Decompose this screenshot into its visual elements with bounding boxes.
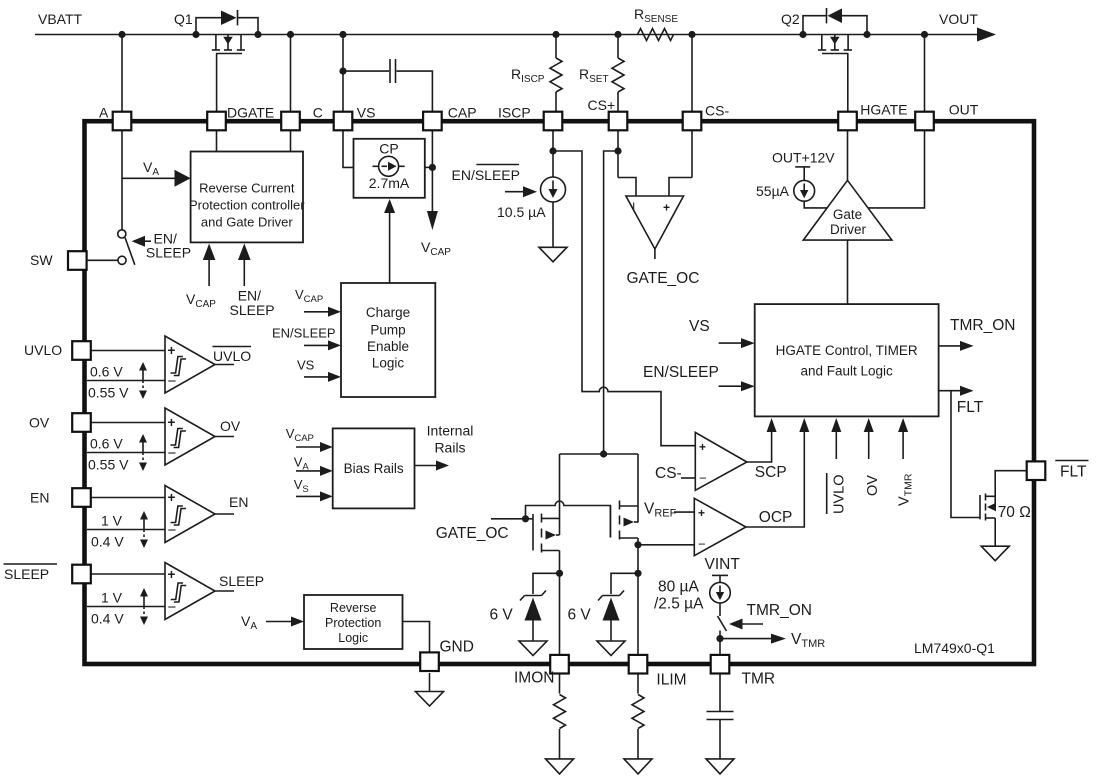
capacitor on TMR	[707, 711, 734, 713]
transistor Q1 body diode	[221, 11, 237, 26]
svg-text:CS-: CS-	[705, 103, 729, 119]
svg-text:Enable: Enable	[367, 339, 409, 354]
wire rail to C pin	[290, 35, 292, 113]
wire rail to VS column	[342, 35, 344, 113]
resistor RSENSE	[638, 29, 674, 41]
threshold double arrow	[142, 368, 144, 381]
wire VREF stub to OCP +	[674, 511, 694, 513]
VCAP down arrowhead	[427, 211, 438, 230]
pin TMR	[711, 655, 730, 674]
ground symbol below FLT FET	[981, 546, 1009, 561]
svg-text:GATE_OC: GATE_OC	[627, 270, 700, 287]
threshold double arrow	[143, 594, 145, 607]
transistor M1 (IMON mirror)	[532, 514, 534, 551]
wire EN/SLEEP arrow into RCP box bottom	[243, 258, 245, 286]
ground symbol below TMR capacitor	[706, 759, 734, 774]
wire M1 drain to mirror rail	[559, 454, 561, 535]
wire rail to A pin	[121, 35, 123, 113]
svg-text:1 V: 1 V	[101, 513, 123, 529]
comparator SCP	[695, 432, 747, 490]
wire capacitor to CAP pin	[397, 71, 433, 112]
ground symbol below IMON resistor	[546, 759, 574, 774]
svg-text:CP: CP	[379, 141, 398, 157]
svg-text:OCP: OCP	[759, 509, 793, 526]
svg-text:Internal: Internal	[427, 423, 474, 439]
svg-text:Q2: Q2	[781, 11, 800, 27]
svg-text:+: +	[699, 440, 706, 454]
capacitor VS-CAP	[389, 59, 391, 83]
wire IMON pin to external resistor	[559, 673, 561, 694]
svg-text:EN/SLEEP: EN/SLEEP	[643, 364, 719, 381]
block Charge Pump Enable Logic	[341, 283, 435, 397]
svg-text:UVLO: UVLO	[832, 475, 848, 515]
resistor on IMON	[554, 695, 566, 729]
wire FLT output arrow	[939, 390, 961, 392]
svg-text:0.55 V: 0.55 V	[88, 385, 129, 401]
wire GND pin to ground	[429, 673, 431, 692]
output UVLO wire stub	[215, 364, 234, 366]
wire OV into block (arrow up)	[868, 431, 870, 459]
svg-text:ILIM: ILIM	[656, 672, 686, 689]
svg-text:EN: EN	[30, 490, 49, 506]
comparator U-SLEEP triangle	[165, 563, 215, 620]
ground symbol below ILIM resistor	[624, 759, 652, 774]
pin EN	[72, 488, 91, 507]
hysteresis symbol	[170, 357, 186, 376]
svg-text:HGATE Control, TIMER: HGATE Control, TIMER	[776, 343, 918, 358]
svg-text:Bias Rails: Bias Rails	[344, 461, 404, 476]
svg-text:+: +	[698, 506, 705, 520]
node VTMR junction	[716, 635, 723, 642]
svg-text:UVLO: UVLO	[24, 342, 62, 358]
EN/SLEEP arrowhead at switch	[132, 236, 145, 247]
wire FLT FET source to ground	[994, 518, 996, 546]
pin ILIM	[629, 655, 648, 674]
pin OV	[72, 413, 91, 432]
svg-text:I: I	[632, 200, 635, 214]
wire CS+ to GATE_OC left input	[618, 178, 636, 197]
wire VA tap to RCP box	[122, 177, 176, 179]
wire Q1 gate to DGATE pin	[216, 54, 218, 113]
wire SLEEP pin to comparator +	[90, 573, 165, 575]
wire HGATE pin to gate driver	[847, 131, 849, 181]
svg-text:SLEEP: SLEEP	[230, 302, 275, 318]
wire VS pin to CP box	[343, 131, 354, 168]
wire DGATE pin to RCP box	[216, 131, 218, 152]
switch upper contact	[118, 230, 126, 238]
wire OV threshold to comparator -	[87, 452, 165, 454]
wire source to TMR switch	[719, 603, 721, 616]
resistor RISCP	[555, 35, 557, 59]
pin VS	[334, 112, 353, 131]
wire to zener D1	[533, 573, 560, 594]
wire mirror top rail	[560, 453, 639, 455]
comparator EN	[30, 486, 248, 550]
switch blade	[125, 238, 135, 265]
wire CS- to GATE_OC right input	[669, 178, 692, 197]
svg-text:TMR_ON: TMR_ON	[747, 602, 812, 619]
svg-text:0.6 V: 0.6 V	[90, 436, 123, 452]
svg-text:Protection: Protection	[325, 616, 381, 630]
svg-text:2.7mA: 2.7mA	[369, 175, 410, 191]
node M1 source/zener junction	[556, 570, 563, 577]
wire TMR pin to external capacitor	[719, 673, 721, 712]
svg-text:C: C	[313, 105, 323, 121]
wire to zener D2	[611, 573, 638, 594]
svg-text:+: +	[663, 201, 670, 215]
switch TMR blade	[718, 616, 727, 631]
wire CS+ branch to mirror rail	[604, 151, 618, 454]
OUT+12V supply bar	[795, 166, 810, 168]
comparator U-UVLO triangle	[165, 336, 215, 393]
wire rail to OUT pin	[924, 35, 926, 113]
amplifier Gate Driver triangle	[803, 180, 892, 240]
wire CS+ pin down	[617, 131, 619, 178]
svg-text:1 V: 1 V	[101, 590, 123, 606]
svg-text:Q1: Q1	[174, 11, 193, 27]
svg-text:VBATT: VBATT	[38, 11, 83, 27]
wire VBATT top rail	[35, 34, 977, 36]
svg-text:0.55 V: 0.55 V	[88, 457, 129, 473]
threshold double arrow	[143, 517, 145, 530]
hysteresis symbol	[170, 506, 186, 525]
svg-text:/2.5 µA: /2.5 µA	[654, 596, 704, 613]
wire ILIM pin to external resistor	[637, 673, 639, 694]
wire rail to CS- pin	[691, 35, 693, 113]
wire M1 source down to IMON	[559, 551, 561, 656]
wire current source to ground	[552, 202, 554, 247]
pin ISCP	[544, 112, 563, 131]
svg-text:6 V: 6 V	[568, 607, 592, 624]
wire C pin to RCP box	[290, 131, 292, 152]
node CS+ junction	[614, 147, 621, 154]
svg-text:OUT+12V: OUT+12V	[772, 150, 835, 166]
op-amp GATE_OC sense amplifier	[626, 196, 684, 249]
wire FLT to fault MOSFET gate	[951, 391, 980, 518]
svg-text:OV: OV	[865, 475, 881, 496]
pin GND	[420, 652, 439, 671]
svg-text:FLT: FLT	[1060, 464, 1087, 481]
wire OV pin to comparator +	[90, 422, 165, 424]
svg-text:CS-: CS-	[655, 465, 682, 482]
wire VS arrow into charge pump logic	[304, 376, 329, 378]
svg-text:VS: VS	[689, 318, 710, 335]
junction dots on rail	[118, 31, 125, 38]
wire A pin down to switch	[121, 131, 123, 230]
ground symbol below GND	[416, 692, 444, 707]
wire EN pin to comparator +	[90, 497, 165, 499]
switch lower contact	[118, 256, 126, 264]
block Bias Rails	[333, 428, 415, 508]
svg-text:+: +	[168, 415, 176, 430]
svg-text:and Fault Logic: and Fault Logic	[800, 364, 893, 379]
node mirror rail junction	[600, 450, 607, 457]
node CAP/CP junction	[429, 164, 436, 171]
transistor Q2 MOSFET symbol	[821, 35, 823, 51]
wire to bypass capacitor	[343, 70, 389, 72]
wire UVLO threshold to comparator -	[87, 380, 165, 382]
comparator U-EN triangle	[165, 486, 215, 543]
svg-text:−: −	[699, 471, 707, 486]
wire SCP into block (arrow up)	[747, 431, 772, 462]
svg-text:Protection controller: Protection controller	[189, 198, 305, 213]
current source 80uA/2.5uA	[710, 582, 731, 603]
pin DGATE	[207, 112, 226, 131]
current source CP 2.7mA	[379, 156, 399, 176]
IC boundary LM749x0-Q1	[85, 121, 1035, 664]
wire VCAP arrow into charge pump logic	[304, 311, 329, 313]
svg-text:+: +	[168, 567, 176, 582]
node VS/cap junction	[339, 68, 346, 75]
svg-text:GATE_OC: GATE_OC	[436, 525, 509, 542]
ground symbol below D2	[597, 641, 625, 656]
node ISCP junction	[549, 147, 556, 154]
charge pump box CP	[354, 139, 425, 198]
ground symbol below 10.5uA source	[539, 247, 567, 261]
svg-text:OV: OV	[29, 415, 50, 431]
wire EN/SLEEP arrow to current source	[505, 191, 524, 193]
hysteresis symbol	[170, 429, 186, 448]
zener diode D1 6V	[525, 595, 542, 597]
pin IMON	[550, 655, 569, 674]
svg-text:10.5 µA: 10.5 µA	[497, 204, 546, 220]
wire CP box to CAP node	[425, 166, 433, 168]
svg-text:LM749x0-Q1: LM749x0-Q1	[914, 640, 995, 656]
transistor Q1 MOSFET symbol	[215, 35, 217, 51]
pin CAP	[423, 112, 442, 131]
pin CS-	[683, 112, 702, 131]
pin A	[113, 112, 132, 131]
svg-text:Logic: Logic	[372, 356, 405, 371]
wire ISCP pin down	[552, 131, 554, 177]
svg-text:55µA: 55µA	[756, 183, 790, 199]
svg-text:VS: VS	[297, 358, 315, 373]
svg-text:Reverse: Reverse	[330, 601, 377, 615]
transistor M2 (ILIM mirror)	[609, 506, 611, 538]
resistor RSET	[617, 35, 619, 59]
svg-text:EN/SLEEP: EN/SLEEP	[272, 326, 336, 341]
VOUT arrowhead	[977, 28, 996, 42]
svg-text:TMR_ON: TMR_ON	[950, 317, 1015, 334]
wire SLEEP threshold to comparator -	[87, 606, 165, 608]
svg-text:HGATE: HGATE	[860, 102, 907, 118]
pin FLT	[1027, 461, 1046, 480]
svg-text:FLT: FLT	[957, 399, 984, 416]
block Reverse Current Protection controller and Gate Driver	[191, 152, 303, 243]
svg-text:SW: SW	[30, 252, 53, 268]
wire RPL box to GND pin	[403, 622, 430, 656]
wire GATE_OC output stub	[654, 249, 656, 259]
svg-text:Charge: Charge	[366, 305, 410, 320]
output EN wire stub	[215, 513, 234, 515]
svg-text:Driver: Driver	[830, 222, 867, 237]
svg-text:EN/SLEEP: EN/SLEEP	[452, 167, 520, 183]
pin C	[281, 112, 300, 131]
threshold double arrow	[142, 440, 144, 453]
current source 10.5uA	[541, 177, 566, 202]
node M2 source/zener junction	[634, 570, 641, 577]
svg-text:OUT: OUT	[949, 102, 979, 118]
svg-text:VS: VS	[357, 105, 376, 121]
svg-text:+: +	[168, 343, 176, 358]
wire 55uA source into gate driver	[804, 201, 828, 208]
svg-text:GND: GND	[440, 639, 474, 656]
wire VCAP arrow into bias rails	[296, 446, 321, 448]
current source 55uA	[794, 180, 815, 201]
wire M2 source to OCP -	[638, 544, 694, 546]
svg-text:DGATE: DGATE	[227, 105, 274, 121]
svg-text:80 µA: 80 µA	[658, 579, 699, 596]
wire UVLO pin to comparator +	[90, 350, 165, 352]
wire VA arrow into RPL box	[266, 621, 292, 623]
output SLEEP wire stub	[215, 590, 234, 592]
comparator OCP	[694, 498, 746, 555]
wire VA arrow into bias rails	[296, 470, 321, 472]
pin OUT	[915, 112, 934, 131]
svg-text:Logic: Logic	[338, 631, 368, 645]
svg-text:70 Ω: 70 Ω	[998, 504, 1031, 521]
svg-text:IMON: IMON	[514, 670, 554, 687]
svg-text:SLEEP: SLEEP	[4, 566, 49, 582]
wire Internal Rails output arrow	[415, 465, 438, 467]
svg-text:SCP: SCP	[755, 464, 787, 481]
svg-text:Reverse Current: Reverse Current	[199, 181, 295, 196]
svg-text:0.4 V: 0.4 V	[91, 611, 124, 627]
svg-text:0.6 V: 0.6 V	[90, 364, 123, 380]
TMR_ON arrowhead at switch	[729, 619, 743, 630]
wire SW pin to switch contact	[87, 259, 118, 261]
wire VTMR into block (arrow up)	[902, 431, 904, 459]
svg-text:OV: OV	[220, 418, 241, 434]
svg-text:EN: EN	[229, 494, 248, 510]
zener diode D2 6V	[603, 595, 620, 597]
block Reverse Protection Logic	[304, 595, 403, 649]
svg-text:Rails: Rails	[434, 440, 465, 456]
svg-text:VINT: VINT	[705, 556, 741, 573]
svg-text:0.4 V: 0.4 V	[91, 534, 124, 550]
wire UVLO into block (arrow up)	[835, 431, 837, 459]
hysteresis symbol	[170, 583, 186, 602]
wire CAP pin to VCAP node	[431, 131, 433, 212]
wire GATE_OC to M1/M2 gates (with hop)	[491, 518, 533, 520]
svg-text:TMR: TMR	[742, 671, 776, 688]
svg-text:−: −	[698, 537, 706, 552]
wire M2 source down to ILIM	[637, 538, 639, 655]
svg-text:SLEEP: SLEEP	[146, 245, 191, 261]
svg-text:+: +	[168, 490, 176, 505]
svg-text:UVLO: UVLO	[213, 348, 251, 364]
svg-text:SLEEP: SLEEP	[219, 573, 264, 589]
comparator OV	[29, 408, 241, 473]
wire VS arrow into bias rails	[296, 495, 321, 497]
output OV wire stub	[215, 436, 234, 438]
wire M2 drain to mirror rail	[637, 454, 639, 523]
wire EN/SLEEP arrow into charge pump logic	[304, 344, 329, 346]
pin HGATE	[838, 112, 857, 131]
pin CS+	[609, 112, 628, 131]
VINT supply bar	[712, 574, 728, 576]
wire VS arrow into HGATE block	[719, 342, 742, 344]
resistor on ILIM	[632, 695, 644, 729]
VA arrowhead into RCP box	[175, 170, 191, 187]
wire EN threshold to comparator -	[87, 529, 165, 531]
svg-text:Pump: Pump	[370, 323, 405, 338]
svg-text:A: A	[99, 105, 109, 121]
wire OUT pin to gate driver right side	[868, 131, 925, 208]
ground symbol below D1	[519, 641, 547, 656]
svg-text:6 V: 6 V	[490, 607, 514, 624]
wire FLT FET drain to FLT pin	[995, 471, 1027, 507]
transistor Q1 body-diode loop wire	[196, 18, 221, 35]
wire VCAP arrow into RCP box bottom	[208, 258, 210, 286]
wire VTMR output arrow	[720, 638, 772, 640]
block HGATE Control, TIMER and Fault Logic	[755, 304, 939, 416]
wire charge-pump-enable to CP box (arrow up)	[389, 211, 391, 283]
wire CS- pin down	[691, 131, 693, 178]
wire OCP into block (arrow up)	[746, 431, 804, 527]
transistor Q2 body-diode loop wire	[803, 16, 826, 35]
transistor Q-FLT (fault output FET)	[979, 495, 981, 519]
comparator UVLO	[24, 336, 251, 401]
wire TMR_ON output arrow	[939, 345, 961, 347]
node M2 source/OCP junction	[634, 541, 641, 548]
transistor Q2 body diode	[828, 8, 843, 23]
svg-text:ISCP: ISCP	[498, 105, 531, 121]
svg-text:CS+: CS+	[588, 97, 616, 113]
wire ISCP branch to SCP comparator (with hop)	[553, 151, 695, 446]
svg-text:and Gate Driver: and Gate Driver	[201, 215, 293, 230]
svg-text:Gate: Gate	[833, 207, 862, 222]
pin SLEEP	[72, 565, 91, 584]
wire gate driver to HGATE control block	[847, 240, 849, 304]
wire Q2 gate to HGATE pin	[847, 54, 849, 113]
comparator SLEEP	[4, 563, 265, 627]
comparator U-OV triangle	[165, 408, 215, 465]
pin UVLO	[72, 341, 91, 360]
wire CS- stub to SCP	[681, 477, 695, 479]
wire EN/SLEEP arrow into HGATE block	[719, 385, 742, 387]
svg-text:CAP: CAP	[448, 105, 477, 121]
svg-text:VOUT: VOUT	[939, 11, 978, 27]
pin SW	[68, 251, 87, 270]
